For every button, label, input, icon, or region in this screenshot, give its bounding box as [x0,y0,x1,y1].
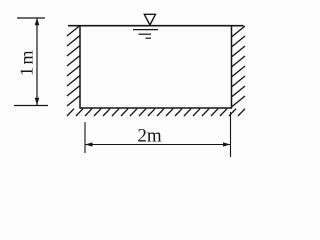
svg-text:2m: 2m [137,126,162,147]
svg-text:1m: 1m [17,48,37,76]
